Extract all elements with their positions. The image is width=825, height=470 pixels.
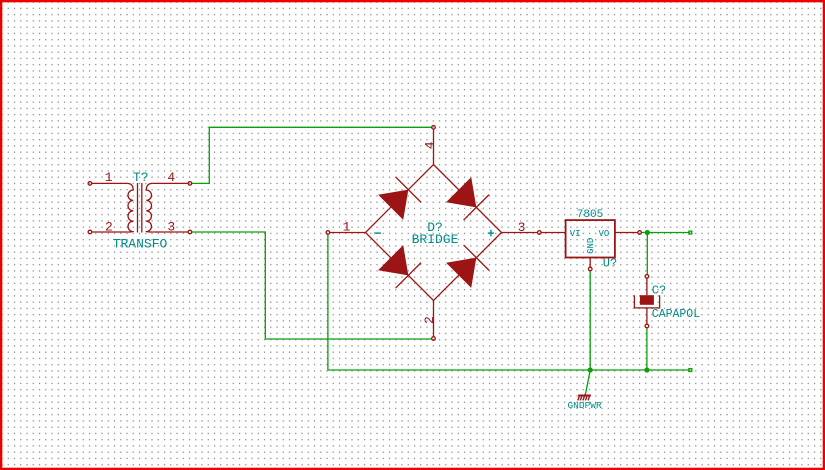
capacitor C1 top plate bbox=[640, 295, 654, 305]
svg-text:4: 4 bbox=[167, 170, 175, 185]
wire end square bottom bus bbox=[689, 369, 692, 372]
wire net bridge pin1 to bottom bus bbox=[328, 234, 690, 370]
transformer T1 pin 2 bbox=[88, 230, 127, 234]
wire VO junction down to capacitor bbox=[646, 233, 648, 275]
transformer T1 pin 3 bbox=[152, 230, 192, 234]
junction capacitor bus bbox=[644, 367, 649, 372]
svg-text:3: 3 bbox=[518, 220, 526, 235]
svg-text:CAPAPOL: CAPAPOL bbox=[652, 308, 700, 321]
svg-text:1: 1 bbox=[343, 220, 351, 235]
svg-text:GNDPWR: GNDPWR bbox=[567, 400, 602, 411]
wire end square VO bbox=[689, 231, 692, 234]
regulator pin VI bbox=[541, 232, 565, 234]
diode D1d bottom-right bbox=[446, 245, 489, 288]
svg-text:2: 2 bbox=[422, 316, 437, 324]
svg-text:BRIDGE: BRIDGE bbox=[412, 232, 459, 247]
wire net pin4 transformer to bridge pin4 bbox=[192, 127, 432, 183]
regulator U1 body bbox=[566, 220, 615, 257]
svg-text:7805: 7805 bbox=[577, 209, 603, 221]
transformer T1 pin 4 bbox=[152, 182, 192, 186]
capacitor C1 top pin bbox=[645, 275, 649, 296]
svg-text:VO: VO bbox=[598, 229, 609, 239]
svg-text:T?: T? bbox=[133, 170, 149, 185]
bridge pin 1 stub bbox=[326, 231, 365, 235]
transformer T1 right winding bbox=[146, 183, 152, 232]
transformer T1 left winding bbox=[127, 183, 133, 232]
svg-text:2: 2 bbox=[105, 220, 113, 235]
wire GNDPWR drop bbox=[586, 370, 591, 394]
bridge D1 diamond outline bbox=[366, 165, 502, 301]
capacitor C1 bottom pin bbox=[645, 308, 649, 328]
bridge pin 3 stub bbox=[502, 231, 542, 235]
capacitor C1 bottom plate bracket bbox=[634, 295, 659, 308]
diode D1c bottom-left bbox=[378, 245, 421, 288]
bridge minus sign bbox=[374, 232, 381, 234]
svg-text:VI: VI bbox=[570, 229, 581, 239]
transformer T1 pin 1 bbox=[88, 182, 127, 186]
regulator pin GND bbox=[588, 258, 592, 271]
transformer T1 core bbox=[138, 183, 142, 233]
wire 7805 GND down to bus bbox=[589, 271, 591, 370]
svg-text:C?: C? bbox=[652, 284, 666, 298]
regulator pin VO bbox=[615, 231, 641, 235]
svg-text:3: 3 bbox=[167, 220, 175, 235]
junction VO node bbox=[645, 230, 650, 235]
svg-text:U?: U? bbox=[603, 257, 617, 271]
svg-text:1: 1 bbox=[105, 170, 113, 185]
bridge pin 4 stub bbox=[432, 126, 436, 165]
wire net pin3 transformer to bridge pin2 bbox=[192, 232, 432, 339]
svg-text:TRANSFO: TRANSFO bbox=[113, 236, 168, 251]
svg-text:GND: GND bbox=[586, 238, 596, 254]
bridge plus sign bbox=[488, 230, 494, 236]
svg-text:4: 4 bbox=[422, 141, 437, 149]
diode D1a top-left bbox=[378, 177, 421, 220]
wire VO output bbox=[641, 232, 690, 234]
junction GND bus bbox=[588, 367, 593, 372]
diode D1b top-right bbox=[446, 177, 489, 220]
ground symbol GNDPWR bbox=[578, 394, 591, 401]
wire capacitor bottom to bus bbox=[646, 328, 648, 370]
bridge pin 2 stub bbox=[432, 301, 436, 341]
